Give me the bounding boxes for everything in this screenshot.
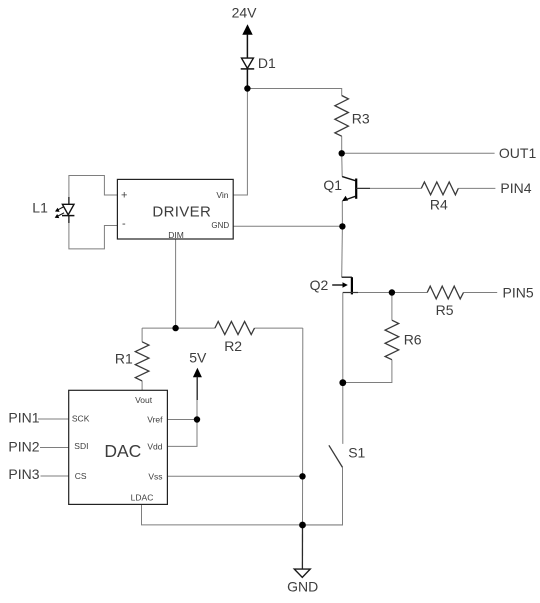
svg-text:Vdd: Vdd (147, 441, 162, 451)
svg-text:R2: R2 (224, 338, 242, 354)
svg-text:PIN3: PIN3 (8, 466, 39, 482)
svg-text:DIM: DIM (168, 230, 184, 240)
svg-text:Q1: Q1 (323, 177, 342, 193)
svg-text:PIN5: PIN5 (503, 285, 534, 301)
svg-text:Vout: Vout (135, 395, 153, 405)
svg-text:OUT1: OUT1 (499, 145, 537, 161)
svg-text:Vref: Vref (147, 414, 163, 424)
svg-text:PIN2: PIN2 (8, 439, 39, 455)
svg-text:R4: R4 (430, 197, 448, 213)
svg-text:24V: 24V (232, 4, 258, 20)
svg-text:DAC: DAC (104, 441, 141, 461)
svg-text:R3: R3 (352, 111, 370, 127)
svg-text:S1: S1 (348, 444, 365, 460)
svg-text:GND: GND (211, 221, 229, 230)
svg-text:5V: 5V (189, 349, 207, 365)
svg-text:LDAC: LDAC (131, 492, 154, 502)
svg-text:PIN4: PIN4 (500, 180, 531, 196)
svg-text:D1: D1 (258, 55, 276, 71)
svg-text:CS: CS (75, 471, 87, 481)
svg-text:R1: R1 (115, 351, 133, 367)
svg-text:PIN1: PIN1 (8, 410, 39, 426)
svg-text:SDI: SDI (74, 441, 88, 451)
svg-text:GND: GND (287, 578, 318, 594)
svg-text:R5: R5 (436, 302, 454, 318)
svg-text:SCK: SCK (72, 413, 90, 423)
svg-text:R6: R6 (404, 332, 422, 348)
svg-text:Vin: Vin (216, 190, 228, 200)
svg-text:Vss: Vss (148, 472, 162, 482)
svg-text:L1: L1 (32, 200, 48, 216)
svg-text:DRIVER: DRIVER (152, 204, 211, 221)
svg-text:+: + (121, 190, 127, 202)
svg-text:Q2: Q2 (310, 277, 329, 293)
svg-text:-: - (122, 218, 126, 230)
